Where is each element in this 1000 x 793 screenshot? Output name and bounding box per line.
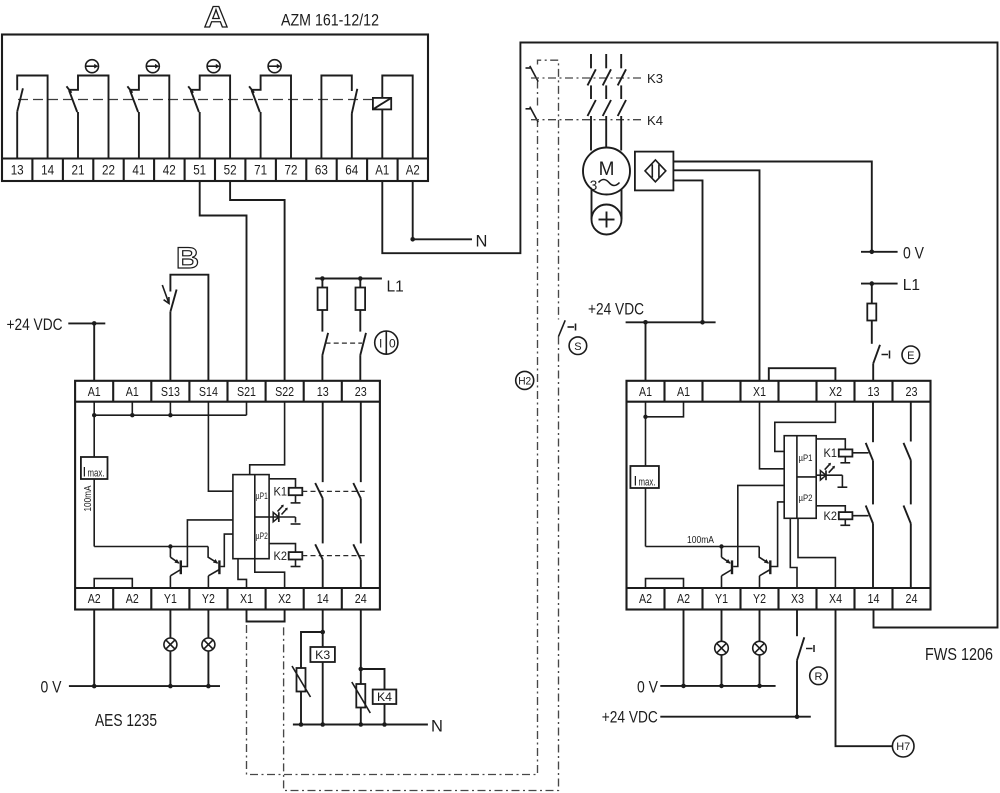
junction L1 fuse 2 [358,276,363,281]
svg-text:Y2: Y2 [753,592,766,606]
X1-X2 jumper below AES [247,610,285,622]
svg-text:52: 52 [224,163,237,178]
FWS terminal rows [627,381,931,610]
tacho generator [592,205,622,235]
reset contact R on X3 [797,610,814,717]
junction bus A1 [92,413,96,417]
junction Y2/0V [206,684,211,689]
safety switch A outline [2,35,428,182]
svg-text:K3: K3 [647,71,663,86]
junction varistor1/N [299,722,304,727]
svg-text:Y2: Y2 [202,592,215,606]
svg-text:K3: K3 [315,648,330,662]
transistor Q1 FWS [722,547,733,589]
wire 52 to S22 [230,181,285,381]
motor M 3~ [583,148,630,195]
0V rail (bottom right) [660,685,775,687]
label H7 (circled) [892,735,914,757]
junction X3/+24 [795,714,800,719]
junction A1 jumper [643,415,647,419]
svg-text:S22: S22 [275,385,294,399]
solenoid A1-A2 [373,76,413,159]
svg-text:µP2: µP2 [256,531,268,542]
mechanical linkage dashed [18,99,373,101]
label E (circled) [902,346,920,364]
svg-text:X1: X1 [240,592,253,606]
wire A2 to 0V FWS [683,610,685,686]
mechanical link of switch contacts [326,342,363,344]
svg-text:51: 51 [193,163,206,178]
contact 71-72 [249,76,291,159]
dashed channel K3 crossing [526,66,539,82]
LED FWS [816,463,847,487]
svg-text:AES 1235: AES 1235 [95,710,157,730]
svg-text:X3: X3 [791,592,804,606]
svg-text:22: 22 [102,163,115,178]
junction bus A1b [130,413,134,417]
svg-text:21: 21 [72,163,85,178]
junction +24/sensor [700,320,705,325]
phase L3 with K3/K4 contacts [618,54,626,151]
svg-text:24: 24 [906,592,918,606]
svg-text:24: 24 [355,592,367,606]
junction L1 fuse 1 [320,276,325,281]
svg-text:B: B [176,242,199,275]
uP output to X1 [238,559,247,588]
junction K4/N [382,722,387,727]
forced actuation symbol 21-22 [86,60,99,73]
switch contact E [873,345,889,381]
emergency stop button B (S13-S14) [170,275,208,381]
L1 rail (left) [315,278,382,280]
svg-text:13: 13 [868,385,880,399]
LED AES [269,505,300,524]
svg-text:N: N [476,233,488,251]
sensor wire to +24V [673,180,702,322]
FWS top terminal labels [639,385,918,399]
svg-text:K2: K2 [824,511,838,523]
svg-text:A1: A1 [126,385,139,399]
svg-text:X4: X4 [829,592,842,606]
contact 41-42 [127,76,169,159]
svg-text:A1: A1 [639,385,652,399]
fuse F1 [318,279,328,332]
safety relay AES 1235 outline [75,381,380,610]
fuse F3 [867,284,876,344]
junction A2/0V [92,684,97,689]
svg-text:X2: X2 [829,385,842,399]
indicator lamp H-Y1 [164,610,177,687]
svg-text:M: M [599,159,615,180]
current limiter I max box AES [81,415,108,546]
svg-text:S21: S21 [237,385,256,399]
junction Y1/0V FWS [719,684,724,689]
X1-X2 jumper above FWS [769,368,836,381]
svg-text:41: 41 [132,163,145,178]
transistor Q2 FWS [759,547,770,589]
svg-text:A2: A2 [639,592,652,606]
wire A2 to N [413,181,472,239]
microprocessor block uP AES [233,475,269,559]
collector wire Q2 FWS [772,502,785,567]
label R (circled) [810,667,828,685]
switch contact to AES 13 [322,333,328,381]
label S (circled) [569,337,587,355]
svg-text:A2: A2 [677,592,690,606]
relay coil K1 AES [269,479,302,503]
output contact 13-14 FWS [866,402,873,588]
svg-text:13: 13 [317,385,329,399]
collector wire Q1 from uP [182,520,233,567]
0V rail (top right) [861,251,898,253]
junction 24/N [359,722,364,727]
forced actuation symbol 71-72 [268,60,281,73]
svg-text:63: 63 [315,163,328,178]
uP output to X2 [255,559,285,588]
wire +24VDC to AES A1 [68,323,105,380]
svg-text:A: A [204,1,228,34]
switch S on dashed channel [559,320,576,336]
safety sensor relay FWS 1206 outline [627,381,931,610]
AES internal supply bus [94,402,246,416]
svg-text:L1: L1 [387,279,404,296]
svg-text:42: 42 [163,163,176,178]
wire A2 to 0V [93,610,95,687]
wire 24 to N with varistor RV2 [352,610,371,725]
svg-text:14: 14 [317,592,329,606]
svg-text:K4: K4 [377,690,392,704]
svg-text:S13: S13 [161,385,180,399]
svg-text:+24 VDC: +24 VDC [7,315,63,334]
contactor K4 mechanical line [531,119,644,121]
junction +24VDC/A1 [92,321,97,326]
svg-text:µP1: µP1 [256,491,268,502]
svg-text:A1: A1 [88,385,101,399]
svg-text:64: 64 [345,163,358,178]
svg-text:AZM 161-12/12: AZM 161-12/12 [281,11,379,30]
svg-text:0 V: 0 V [903,245,924,263]
wire +24 to FWS A1 [645,322,647,381]
transistor bus AES [94,546,208,548]
junction sensor/0V [870,250,875,255]
collector wire Q2 from uP [221,534,233,566]
svg-text:X2: X2 [278,592,291,606]
indicator lamp FWS Y2 [753,610,767,686]
motor-tacho links [592,189,622,219]
collector wire Q1 FWS [733,485,784,566]
svg-text:100mA: 100mA [687,534,714,546]
svg-text:E: E [907,350,914,362]
svg-text:K1: K1 [824,448,838,460]
wire S14 to uP [208,402,233,492]
svg-text:14: 14 [868,592,880,606]
forced actuation symbol 51-52 [207,60,220,73]
actuator arrow of B [162,285,169,304]
junction A2/0V FWS [681,684,686,689]
wire A1 loop to FWS 14 [382,43,997,628]
transistor Q2 AES [208,547,219,589]
svg-text:23: 23 [906,385,918,399]
forced actuation symbol 41-42 [146,60,159,73]
current limiter I max box FWS [630,402,659,547]
svg-text:+24 VDC: +24 VDC [588,300,644,319]
0V rail (left) [69,685,220,687]
contactor coil K3 [310,647,335,662]
contactor K3 mechanical line [531,77,644,79]
svg-text:µP2: µP2 [799,493,813,504]
sensor wire to X1 [673,170,759,380]
svg-text:S: S [574,341,581,353]
dashed actuator channel X1 side [247,122,538,775]
svg-text:+24 VDC: +24 VDC [602,708,658,727]
svg-text:A1: A1 [677,385,690,399]
junction Y1/0V [168,684,173,689]
svg-text:A2: A2 [88,592,101,606]
AES top terminal labels [88,385,367,399]
svg-text:Y1: Y1 [164,592,177,606]
svg-text:0 V: 0 V [41,679,62,697]
svg-text:K2: K2 [274,551,288,563]
junction 14/N [320,722,325,727]
wire X2 to uP FWS [775,402,836,452]
output contact 23-24 AES [353,402,361,588]
AES bottom terminal labels [88,592,367,606]
svg-text:71: 71 [254,163,267,178]
wire X4 to H7 [836,610,893,747]
svg-text:A1: A1 [375,163,389,178]
relay coil K2 AES [269,544,302,567]
transistor bus FWS [646,546,760,548]
svg-text:72: 72 [285,163,298,178]
contactor coil K4 [361,669,397,725]
AES terminal rows [75,381,380,610]
svg-text:µP1: µP1 [799,453,813,464]
svg-text:A2: A2 [406,163,420,178]
phase L1 with K3/K4 contacts [588,54,596,151]
svg-text:max.: max. [639,477,656,489]
svg-text:14: 14 [41,163,54,178]
svg-text:max.: max. [88,468,105,480]
svg-text:K4: K4 [647,113,663,128]
output contact 13-14 AES [315,402,323,588]
FWS bottom terminal labels [639,592,918,606]
relay coil K2 FWS [816,506,868,526]
svg-text:0 V: 0 V [637,678,658,696]
fuse F2 [356,279,366,332]
contact 13-14 [17,76,47,159]
mech link K1 contacts AES [302,490,366,492]
switch contact to AES 23 [360,333,366,381]
dashed channel K4 crossing [526,107,539,123]
junction bus S13 [168,413,172,417]
phase L2 with K3/K4 contacts [603,54,611,148]
contact 51-52 [188,76,230,159]
svg-text:I: I [379,337,382,351]
wire 51 to S21 [200,181,247,381]
dashed channel top cap [538,60,559,319]
contact 63-64 [321,76,357,159]
contact 21-22 [67,76,109,159]
junction bus Q1 FWS [719,544,723,548]
indicator lamp H-Y2 [202,610,215,687]
microprocessor block uP FWS [784,436,816,519]
svg-text:0: 0 [389,337,396,351]
svg-text:K1: K1 [274,487,288,499]
svg-text:23: 23 [355,385,367,399]
junction 14/varistor [320,630,325,635]
junction bus Q1 [168,544,172,548]
junction A2-N [410,237,415,242]
dashed actuator channel X2 side [284,337,559,791]
wire 14 to N with contactor coil K3 [322,610,324,725]
svg-text:H2: H2 [518,375,531,387]
sensor wire to 0V [673,162,871,252]
A1-A1 internal jumper FWS [646,402,684,417]
uP output to X3 FWS [790,518,797,588]
svg-text:X1: X1 [753,385,766,399]
L1 rail (right) [861,283,898,285]
label H2 (circled) [516,371,534,389]
svg-text:A2: A2 [126,592,139,606]
wire S22 to uP [250,402,285,475]
svg-text:S14: S14 [199,385,218,399]
svg-text:L1: L1 [903,277,920,294]
wire X1 to uP FWS [760,402,785,469]
svg-text:I: I [634,474,638,489]
transistor Q1 AES [170,547,180,589]
svg-text:Y1: Y1 [715,592,728,606]
svg-text:N: N [431,718,443,736]
A2-A2 internal jumper AES [94,579,132,588]
N rail (bottom) [293,724,428,726]
svg-text:100mA: 100mA [82,486,94,512]
mech link K2 contacts AES [302,555,366,557]
svg-text:FWS 1206: FWS 1206 [925,644,993,664]
terminal strip AZM [2,159,428,182]
svg-text:H7: H7 [896,741,910,753]
junction 24/K4 branch [359,667,364,672]
selector switch symbol I/0 [375,331,398,354]
output contact 23-24 FWS [904,402,911,588]
terminal labels AZM [11,163,420,178]
+24 VDC rail (bottom right) [660,716,811,718]
junction L1/fuse [870,281,875,286]
junction Y2/0V FWS [757,684,762,689]
magnetic sensor FWS head [635,152,674,191]
relay coil K1 FWS [816,439,868,463]
svg-text:I: I [83,465,87,480]
varistor RV1 [292,632,323,725]
svg-text:R: R [815,671,823,683]
svg-text:13: 13 [11,163,24,178]
junction +24/A1 FWS [643,320,648,325]
+24 VDC rail (right) [626,321,716,323]
dashed channel segment between K3 and K4 [537,82,539,106]
uP output to X4 FWS [798,518,835,588]
A2-A2 internal jumper FWS [646,579,684,588]
indicator lamp FWS Y1 [715,610,729,686]
